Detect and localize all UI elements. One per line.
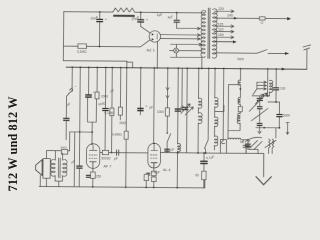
lamp La [174, 48, 179, 53]
wire T2 primary top [54, 151, 56, 160]
svg-text:100: 100 [280, 87, 286, 91]
transformer T1 secondary winding [212, 9, 217, 58]
wire mains lead with fuse Si [214, 16, 291, 20]
capacitor C1 [96, 12, 103, 47]
band switch blade S3 [253, 82, 257, 95]
transformer T1 primary winding [201, 10, 206, 57]
coil L1 U-former [88, 98, 97, 122]
svg-text:125: 125 [218, 23, 224, 27]
wire C3 to winding tap [177, 27, 201, 29]
pickup jack U [220, 140, 226, 154]
oscillator coil L4 column x240.3 [237, 68, 242, 131]
wire top HT rail [64, 12, 205, 13]
IF transformer L2 riser x198.5 [197, 67, 202, 153]
node rail-C3 [176, 12, 178, 14]
band switch blade S4 long [249, 93, 267, 112]
capacitor C2 [137, 12, 144, 26]
wire anode diagonals to rectifier [140, 26, 149, 46]
grid line left segment [100, 151, 148, 153]
svg-text:50000: 50000 [101, 156, 110, 160]
wire speaker top link [46, 151, 69, 159]
wire rail y47 [63, 45, 140, 48]
pickup terminals [243, 145, 249, 153]
wire vertical x80 [79, 67, 80, 186]
stub with arrow x287.8 [286, 122, 289, 134]
main bus wire y68 [66, 67, 306, 69]
IF transformer L3 riser x214.8 [213, 68, 224, 150]
capacitor C10 electrolytic riser [144, 174, 149, 188]
wire tap 150V [214, 36, 234, 39]
svg-text:712 W und 812 W: 712 W und 812 W [6, 96, 20, 192]
wire step joining rail to bus [127, 61, 133, 68]
svg-text:1µF: 1µF [157, 13, 163, 17]
choke Dr1 zigzag with core bar [113, 8, 136, 17]
capacitor C13 padder [245, 139, 258, 154]
speaker LS cone [36, 160, 43, 176]
capacitor C15 [276, 114, 282, 128]
svg-text:Netz: Netz [237, 57, 244, 61]
wire tap 220V [214, 10, 234, 13]
output transformer T2 secondary [63, 159, 68, 176]
resistor R6 grid stopper [102, 150, 108, 154]
tube V3 cathode chain [146, 168, 156, 188]
bottom ground bus [39, 178, 205, 188]
node C1-y47 [99, 46, 101, 48]
wire y101 and drop [268, 102, 280, 114]
wire stub x75 [73, 132, 75, 187]
resistor R8 riser x167.5 [164, 67, 171, 153]
wire tap 110V [214, 30, 234, 33]
ground/earth lead symbol top right [303, 45, 311, 69]
wire arc to trimmer junction [248, 137, 262, 140]
svg-text:µF: µF [171, 148, 175, 152]
tube V2 cathode chain [86, 168, 95, 188]
switch S2 riser x208.5 [204, 67, 209, 153]
svg-text:0,15M: 0,15M [104, 111, 113, 115]
wire left vertical of supply loop [62, 12, 64, 61]
output transformer T2 primary [51, 159, 56, 176]
lamp La bracket wires [169, 44, 202, 57]
wire tap dark arrow [214, 41, 233, 43]
capacitor C6 on x88.5 [85, 66, 92, 97]
wire mains lead 2 with switch S1 [214, 49, 288, 53]
svg-text:0,1MΩ: 0,1MΩ [77, 50, 87, 54]
svg-text:5000: 5000 [283, 114, 290, 118]
wire rail end into primary top [204, 11, 207, 13]
node V1-bus [156, 67, 158, 69]
chassis arrow (big chevron) [256, 177, 271, 185]
band switch blades S5 [250, 140, 263, 149]
wire L1 to tube V2 anode [91, 122, 93, 144]
output transformer T2 core [59, 158, 61, 178]
node x126.5 on ground bus [125, 186, 127, 188]
wire stub x70 [69, 132, 71, 151]
svg-text:µF: µF [110, 88, 114, 93]
resistor R2 [95, 67, 99, 99]
antenna drop wire [71, 67, 73, 87]
speaker field coil frame [43, 159, 50, 179]
HF coil pair L7 [265, 139, 276, 154]
svg-text:110: 110 [218, 27, 224, 31]
wire bus drop x267.5 [267, 69, 269, 96]
wire x276.2 drop [275, 128, 277, 138]
wire y95 [252, 95, 269, 97]
node rail-C1 [99, 11, 101, 13]
resistor R7 hum bucking [61, 150, 67, 155]
resistor R4 [118, 67, 122, 120]
resistor R3 [110, 67, 115, 154]
svg-text:2MΩ: 2MΩ [119, 121, 126, 125]
capacitor C11 riser x178 with coil [174, 67, 181, 188]
band switch blade S4b [251, 108, 268, 121]
variable capacitor VC1 [181, 67, 194, 153]
wire tap 125V [214, 25, 234, 28]
wire anode riser to tube V3 [153, 68, 156, 143]
rectifier tube V1 [149, 31, 160, 42]
svg-text:2000: 2000 [101, 94, 108, 98]
wire V1 cathode to winding taps [160, 35, 200, 39]
capacitor C14 x276 [273, 68, 279, 102]
capacitor C7 on x105.5 [102, 67, 109, 153]
tube V2 [86, 143, 100, 168]
svg-text:AF 7: AF 7 [103, 165, 111, 169]
svg-text:O: O [261, 21, 264, 25]
wire riser x223.5 [220, 69, 223, 144]
capacitor C9 coupling [117, 150, 119, 155]
svg-text:AL 4: AL 4 [163, 168, 171, 172]
capacitor C3 [174, 13, 180, 29]
resistor R1 [78, 44, 87, 49]
svg-text:5000: 5000 [61, 146, 68, 150]
svg-text:1000: 1000 [157, 110, 164, 114]
wire T2 secondary top [62, 153, 64, 160]
wire y132.7 link [70, 131, 92, 133]
svg-text:150: 150 [218, 33, 224, 37]
wire heater riser x201.5 [201, 58, 203, 69]
wire rail y61.5 [63, 60, 126, 63]
svg-text:220: 220 [218, 7, 224, 11]
oscillator coil L6 x269.3 [269, 80, 272, 96]
svg-text:150: 150 [96, 174, 102, 178]
svg-text:+ 4µF: + 4µF [151, 170, 160, 174]
svg-text:AZ 1: AZ 1 [146, 47, 155, 52]
tube V3 [148, 143, 161, 168]
svg-text:60: 60 [195, 173, 199, 177]
svg-text:µF: µF [114, 157, 118, 161]
coil L5 horizontal [228, 138, 248, 140]
wire osc left leg x228.3 [228, 85, 240, 140]
band switch taps into L6 [257, 81, 267, 83]
wire antenna coupling column [65, 96, 67, 140]
capacitor C4 [63, 118, 69, 121]
wire V1 bottom to bus [156, 42, 158, 68]
svg-text:240: 240 [227, 14, 233, 18]
svg-text:0,4MΩ: 0,4MΩ [112, 133, 122, 137]
wire y126.8 [256, 127, 280, 129]
capacitor C8 electrolytic on x140.5 [137, 67, 144, 115]
svg-text:µF: µF [149, 105, 153, 109]
transformer T1 core [208, 8, 210, 58]
capacitor C12 + resistor R9 drop x204.5 [200, 152, 208, 188]
node rail-C2 [140, 11, 142, 13]
trimmer VC2 x259.8 [255, 94, 264, 133]
wire speaker bottoms [40, 175, 62, 186]
resistor R5 on x126.5 column [124, 61, 129, 187]
antenna arrow [68, 88, 73, 96]
capacitor C5 [76, 165, 82, 168]
main line to chassis arrow [160, 153, 264, 177]
